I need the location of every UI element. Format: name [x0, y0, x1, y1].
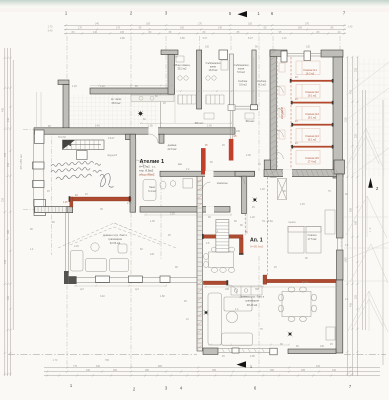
- sill left facade b: [33, 181, 45, 188]
- atelier 1 label: [139, 159, 164, 177]
- corridor thin east wall of wc shaft: [229, 54, 233, 105]
- central spine vertical wall with ladder hatch: [197, 176, 202, 351]
- bottom section arrow: [237, 361, 247, 367]
- bath south wall: [140, 207, 230, 213]
- svg-text:300: 300: [113, 369, 118, 372]
- south window sills: [95, 276, 239, 353]
- roof projection dashed lines: [58, 223, 176, 248]
- svg-text:1.70: 1.70: [53, 359, 58, 362]
- small red dimension numbers: [63, 77, 298, 234]
- svg-text:16.2 м2: 16.2 м2: [306, 73, 315, 76]
- bedroom / living labels: [103, 233, 317, 307]
- svg-text:16.1 м2: 16.1 м2: [308, 139, 317, 142]
- svg-text:баня: баня: [149, 185, 155, 189]
- svg-text:300: 300: [270, 369, 275, 372]
- svg-text:17.4 м2: 17.4 м2: [308, 161, 317, 164]
- small symbol living: [204, 310, 208, 314]
- small post corridor top a: [281, 51, 287, 62]
- hatch ticks south window band ap1: [222, 349, 264, 353]
- svg-text:1 : 2: 1 : 2: [369, 227, 372, 232]
- svg-text:дневна: дневна: [168, 144, 177, 147]
- svg-text:Фитнес: Фитнес: [195, 121, 204, 125]
- entry hall tiled floor grid: [70, 95, 158, 128]
- right dimension band: [348, 57, 384, 376]
- svg-text:145: 145: [218, 27, 223, 30]
- corridor west wall: [270, 50, 276, 177]
- lockers / fixtures changing rooms: [176, 56, 228, 104]
- svg-text:22.6 м2: 22.6 м2: [168, 147, 178, 151]
- ap1 south facade: [218, 348, 270, 350]
- svg-text:хол: хол: [178, 163, 183, 166]
- svg-text:Съблекалня: Съблекалня: [234, 63, 249, 67]
- svg-text:3.40: 3.40: [100, 295, 105, 298]
- svg-text:2.05: 2.05: [148, 125, 153, 128]
- interior thin dim lines: [74, 57, 341, 345]
- sill lines top corridor: [287, 53, 321, 56]
- svg-text:1.20: 1.20: [260, 188, 265, 191]
- svg-text:170: 170: [78, 27, 83, 30]
- svg-text:тераса: тераса: [288, 221, 296, 224]
- svg-text:КОРИДОР: КОРИДОР: [281, 107, 284, 119]
- east wall block at grid: [334, 160, 345, 174]
- bath fixtures: [143, 179, 193, 201]
- svg-text:1.45: 1.45: [207, 125, 212, 128]
- svg-text:350: 350: [145, 369, 150, 372]
- red column B (hall): [229, 139, 234, 161]
- svg-text:310: 310: [332, 369, 337, 372]
- svg-text:2.05: 2.05: [246, 154, 251, 157]
- L-wall top horizontal: [161, 50, 178, 55]
- sill line changing rooms: [235, 105, 251, 107]
- svg-text:13x17: 13x17: [108, 137, 115, 140]
- svg-text:трапезария: трапезария: [108, 238, 122, 241]
- svg-text:Дневна с кух. бокс и: Дневна с кух. бокс и: [240, 295, 265, 299]
- handwritten annotation: [51, 161, 113, 187]
- living west facade: [65, 213, 67, 273]
- red room labels east wing: [281, 69, 319, 164]
- svg-text:1.70: 1.70: [48, 25, 53, 28]
- living south wall: [288, 349, 336, 354]
- top grid axis labels: [65, 11, 346, 17]
- entry hall counter: [131, 95, 174, 102]
- svg-text:120: 120: [205, 46, 210, 49]
- svg-text:1.45: 1.45: [300, 203, 305, 206]
- L-wall vertical: [168, 55, 175, 95]
- svg-text:140: 140: [93, 31, 98, 34]
- ap1 kitchen counter below red wall: [231, 286, 262, 295]
- svg-text:Съблек.: Съблек.: [257, 79, 267, 83]
- bottom dimension band: [44, 368, 380, 376]
- bedroom dividers east wing (red): [291, 80, 333, 148]
- svg-text:1: 1: [250, 365, 252, 369]
- table below stairs: [77, 151, 88, 160]
- svg-text:1.20: 1.20: [72, 85, 77, 88]
- svg-text:32.06 м2: 32.06 м2: [110, 241, 121, 245]
- svg-text:Съблек.: Съблек.: [238, 79, 248, 83]
- wc east T-wall horizontal: [235, 171, 255, 176]
- construction grid dashed centerlines: [23, 36, 340, 367]
- svg-text:вх. зала: вх. зала: [111, 98, 121, 101]
- bedroom1 south red wall: [267, 279, 336, 282]
- red corner post: [263, 275, 267, 284]
- center dining table + chairs: [204, 247, 235, 272]
- hall south wall (mid): [160, 171, 255, 176]
- svg-text:300: 300: [355, 220, 358, 225]
- svg-text:2.80: 2.80: [120, 37, 125, 40]
- svg-text:305: 305: [301, 369, 306, 372]
- svg-text:1.80: 1.80: [160, 295, 165, 298]
- corridor west top cap: [270, 50, 287, 56]
- svg-text:гардероб: гардероб: [107, 154, 118, 157]
- small compass mark hall: [138, 111, 143, 116]
- bedroom1 east wall upper: [337, 174, 344, 238]
- svg-text:1.20: 1.20: [250, 216, 255, 219]
- svg-text:тоалетна: тоалетна: [217, 182, 229, 185]
- narrow duct wall: [252, 50, 256, 105]
- svg-text:470: 470: [4, 152, 7, 157]
- bedroom1 north hatched wall: [264, 170, 343, 177]
- svg-text:450: 450: [4, 259, 7, 264]
- svg-text:1.20: 1.20: [282, 37, 287, 40]
- svg-text:Спалня: Спалня: [307, 233, 317, 237]
- right north arrow: [368, 178, 379, 191]
- east wing east wall: [333, 57, 343, 178]
- living south facade: [76, 277, 197, 279]
- left dimension band: [5, 48, 13, 376]
- svg-text:5.07: 5.07: [203, 37, 208, 40]
- svg-text:Съблекалня: Съблекалня: [206, 61, 221, 65]
- door arcs: [136, 86, 284, 294]
- svg-text:5.07: 5.07: [248, 37, 253, 40]
- svg-text:6.4 м2: 6.4 м2: [148, 189, 156, 193]
- living east wall: [336, 280, 343, 353]
- entry hall top cap: [58, 80, 69, 85]
- svg-text:3.65: 3.65: [180, 37, 185, 40]
- beds in east wing rooms (light red): [279, 61, 320, 164]
- svg-text:общо 86м2: общо 86м2: [139, 173, 155, 177]
- svg-text:2.95: 2.95: [250, 355, 255, 358]
- svg-text:225: 225: [355, 294, 358, 299]
- fitness room marks: [204, 113, 254, 119]
- hatch ticks on bedroom1 north wall: [266, 170, 339, 177]
- changing rooms divider wall: [197, 50, 202, 109]
- svg-text:Н=2.60: Н=2.60: [58, 136, 66, 139]
- nub below spine: [126, 134, 133, 140]
- svg-text:220: 220: [236, 130, 241, 133]
- svg-text:2.20: 2.20: [74, 245, 79, 248]
- svg-text:120: 120: [306, 46, 311, 49]
- faint survey grid right margin: [345, 58, 389, 176]
- ap1 living sofa L: [208, 293, 253, 346]
- svg-text:180: 180: [298, 27, 303, 30]
- entry hall north wall: [90, 88, 175, 94]
- svg-text:3.40: 3.40: [48, 29, 53, 32]
- svg-text:ЗП=286 м2: ЗП=286 м2: [19, 154, 23, 170]
- svg-text:786: 786: [105, 359, 110, 362]
- svg-text:1.40: 1.40: [348, 25, 353, 28]
- svg-text:455: 455: [350, 302, 353, 307]
- svg-text:Ап. 1: Ап. 1: [250, 238, 263, 244]
- left facade windows (atelier): [32, 135, 34, 207]
- svg-text:Пл. 16.5м: Пл. 16.5м: [262, 220, 273, 223]
- duct wall end cap: [251, 105, 258, 110]
- east wing top cap: [321, 50, 343, 57]
- svg-text:218: 218: [7, 117, 10, 122]
- square left end of spine: [35, 130, 45, 144]
- small symbol ap1 living: [288, 332, 292, 336]
- stairs: [63, 140, 105, 150]
- small wall piece above bedroom1: [264, 160, 271, 170]
- svg-text:А=95.6м2: А=95.6м2: [250, 245, 264, 249]
- interior dim line y91: [176, 90, 269, 92]
- top north arrow: [238, 11, 248, 17]
- corridor west wall hatch: [270, 50, 276, 174]
- svg-text:270: 270: [198, 23, 203, 26]
- central wall south end block: [203, 348, 218, 354]
- svg-text:35.2 м2: 35.2 м2: [178, 67, 188, 71]
- red column A (hall): [201, 148, 206, 174]
- svg-text:2.60: 2.60: [127, 202, 132, 205]
- window post south square: [270, 348, 277, 355]
- svg-text:3.40: 3.40: [95, 125, 100, 128]
- svg-text:225: 225: [355, 67, 358, 72]
- svg-text:Фитнес: Фитнес: [246, 119, 255, 123]
- svg-text:600: 600: [350, 207, 353, 212]
- tiny tick crosses along interior dims: [75, 122, 338, 345]
- ap1 red wall vertical: [239, 238, 243, 254]
- bedroom1 bed: [278, 179, 322, 254]
- svg-text:248: 248: [7, 295, 10, 300]
- corner post south-west: [64, 271, 77, 284]
- wardrobe ladder: [216, 220, 229, 253]
- svg-text:720: 720: [1, 197, 4, 202]
- terrain / tree diagonals right margin: [344, 62, 389, 332]
- wc east T-wall vertical: [242, 176, 247, 213]
- svg-text:680: 680: [158, 365, 163, 368]
- red wall west (terrace) horizontal: [69, 196, 131, 207]
- svg-text:150: 150: [248, 23, 253, 26]
- top dimension band: [64, 25, 346, 33]
- white filled wall pieces: [33, 50, 311, 355]
- svg-text:615: 615: [316, 365, 321, 368]
- svg-text:340: 340: [95, 23, 100, 26]
- svg-text:Ц.Х: Ц.Х: [80, 288, 84, 291]
- west vertical wall of atelier hall: [130, 134, 136, 212]
- svg-text:17.5 м2: 17.5 м2: [308, 237, 318, 241]
- stub wall top of wc: [219, 50, 228, 59]
- svg-text:640: 640: [96, 365, 101, 368]
- bedroom1 east wall lower: [337, 250, 344, 280]
- svg-text:365: 365: [212, 369, 217, 372]
- svg-text:120: 120: [150, 253, 155, 256]
- ap 1 label: [250, 238, 264, 249]
- red corridor line east wing: [290, 57, 292, 170]
- svg-text:185: 185: [146, 23, 151, 26]
- svg-text:1.35: 1.35: [150, 220, 155, 223]
- scattered small dimension numbers: [30, 37, 349, 358]
- ap1 dining table + chairs: [279, 287, 317, 322]
- sill left facade a: [33, 162, 45, 169]
- svg-text:175: 175: [116, 27, 121, 30]
- door openings (white gaps): [149, 127, 293, 212]
- svg-text:250: 250: [7, 162, 10, 167]
- dim line above entry wall: [90, 84, 174, 86]
- entry hall west wall: [63, 85, 69, 129]
- property dash-dot line: [8, 354, 386, 356]
- svg-text:1.45: 1.45: [63, 202, 68, 204]
- svg-text:2.40: 2.40: [100, 85, 105, 88]
- svg-text:трапезария: трапезария: [245, 300, 259, 303]
- svg-text:120: 120: [320, 345, 325, 348]
- main spine wall: [34, 128, 235, 134]
- small post corridor top b: [304, 51, 311, 61]
- bottom grid axis labels: [70, 383, 352, 392]
- living north red wall segment: [203, 281, 228, 285]
- svg-text:дневна с кух. бокс и: дневна с кух. бокс и: [103, 233, 128, 237]
- svg-text:28.6 м2: 28.6 м2: [112, 101, 122, 105]
- svg-text:368: 368: [255, 288, 260, 291]
- svg-text:370: 370: [305, 23, 310, 26]
- svg-text:Общо помещ.: Общо помещ.: [174, 63, 191, 67]
- porch square left: [34, 200, 46, 216]
- stub below spine at hall: [159, 134, 164, 143]
- svg-text:Ц.Х: Ц.Х: [135, 288, 139, 291]
- svg-text:390: 390: [7, 229, 10, 234]
- svg-text:340: 340: [86, 369, 91, 372]
- svg-text:105: 105: [120, 31, 125, 34]
- svg-text:5.6 м2: 5.6 м2: [237, 70, 245, 74]
- svg-text:Кухня: Кухня: [302, 281, 309, 284]
- small symbol ap1: [253, 198, 257, 202]
- svg-text:775: 775: [73, 365, 78, 368]
- svg-text:16.8 м2: 16.8 м2: [209, 68, 219, 72]
- svg-text:16.1 м2: 16.1 м2: [308, 117, 317, 120]
- sofas atelier living: [71, 243, 129, 272]
- bedroom1 east window: [337, 238, 339, 250]
- svg-text:4.1 м2: 4.1 м2: [258, 83, 266, 87]
- svg-text:38.40 м2: 38.40 м2: [247, 303, 258, 307]
- svg-text:205: 205: [225, 288, 230, 291]
- svg-text:5.6 м2: 5.6 м2: [239, 83, 247, 87]
- svg-text:16.1 м2: 16.1 м2: [308, 95, 317, 98]
- ap1 red wall horizontal: [203, 235, 243, 239]
- svg-text:160: 160: [180, 27, 185, 30]
- kitchenette bedroom1: [325, 210, 335, 234]
- room labels upper block: [111, 61, 267, 193]
- svg-text:405: 405: [1, 107, 4, 112]
- porch masonry wall hatched: [35, 207, 73, 213]
